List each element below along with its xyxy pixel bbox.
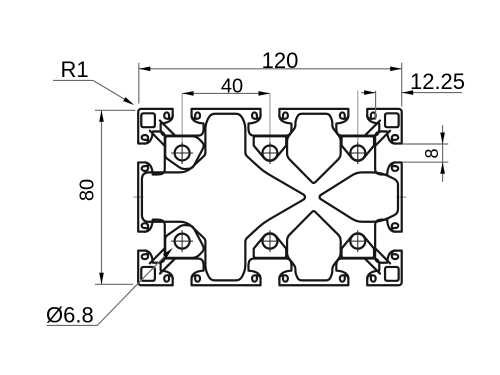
svg-text:12.25: 12.25 — [410, 69, 465, 94]
svg-text:R1: R1 — [61, 57, 89, 82]
svg-text:8: 8 — [422, 148, 442, 158]
svg-text:Ø6.8: Ø6.8 — [46, 303, 94, 328]
svg-text:40: 40 — [221, 75, 243, 97]
svg-text:120: 120 — [262, 48, 299, 73]
svg-text:80: 80 — [77, 179, 99, 201]
